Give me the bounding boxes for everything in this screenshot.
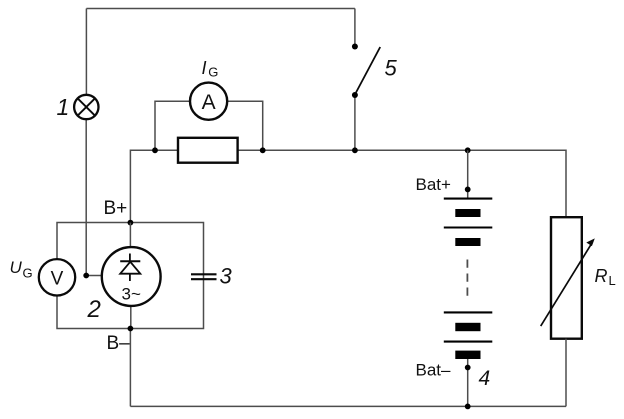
junction dot bus / battery [465,147,471,153]
switch 5 top contact dot [352,44,358,50]
wire top rail [86,8,355,10]
wire switch lower drop [354,95,356,150]
svg-text:2: 2 [87,296,101,323]
junction dot bus / switch [352,147,358,153]
svg-text:R: R [595,266,608,286]
svg-text:Bat–: Bat– [416,361,452,380]
svg-text:5: 5 [385,56,398,81]
wire rheostat bottom lead [565,339,567,407]
node Bat+ junction dot [465,187,471,193]
wire battery top lead [467,150,469,198]
label B- [107,333,131,354]
wire generator box loop (B+ rail, capacitor branch, B- rail, voltmeter branch) [57,223,204,329]
node Bat- junction dot [465,365,471,371]
junction dot bus-right / ammeter [260,147,266,153]
label 3 (capacitor designator) [220,264,233,289]
svg-text:Bat+: Bat+ [416,175,452,194]
label 4 (battery designator) [479,367,491,390]
wire battery bottom lead [467,359,469,406]
wire ammeter left lead [155,101,190,150]
label B+ [104,198,128,219]
switch 5 blade [356,47,380,93]
label 2 (generator designator) [87,296,101,323]
svg-text:V: V [51,269,64,290]
wire ammeter right lead [227,101,263,150]
lamp 1 (indicator lamp symbol) [74,95,98,119]
svg-text:4: 4 [479,367,491,390]
label RL (load resistance) [595,266,616,288]
label UG (generator voltage) [10,258,33,281]
rheostat RL (variable load resistor) [541,217,595,339]
svg-text:G: G [208,65,218,80]
wire B+ to generator top [129,223,131,248]
svg-text:U: U [10,258,23,277]
svg-text:A: A [202,91,216,114]
label IG (generator current) [202,58,219,80]
ammeter U meter A [190,83,227,120]
label 5 (switch designator) [385,56,398,81]
wire lamp branch upper [85,9,87,96]
node D+ junction dot [83,273,89,279]
voltmeter UG meter V [39,259,75,295]
resistor shunt (unlabelled rectangle) [178,138,238,163]
wire bottom bus [130,405,566,407]
label Bat- [416,361,452,380]
capacitor 3 plates [191,274,217,279]
switch 5 bottom contact dot [352,92,358,98]
junction dot bus-left / ammeter [152,147,158,153]
wire switch upper drop [354,9,356,47]
svg-text:I: I [202,58,207,78]
svg-text:1: 1 [57,94,70,120]
node B+ junction dot [127,220,133,226]
generator 2 (three-phase alternator with rectifier) [102,247,161,306]
svg-text:G: G [23,266,33,281]
battery 4 (multi-cell accumulator) [444,199,493,359]
svg-text:B+: B+ [104,198,128,219]
svg-text:3~: 3~ [122,284,141,303]
svg-text:B–: B– [107,333,131,354]
svg-text:3: 3 [220,264,233,289]
wire main bus [130,150,566,222]
label 1 (lamp designator) [57,94,70,120]
wire generator bottom to B- [130,306,132,329]
svg-text:L: L [609,273,616,288]
wire lamp branch lower (crosses box edge, no junction) [85,119,87,276]
node B- junction dot [127,326,133,332]
junction dot bottom bus / battery [465,404,471,410]
label Bat+ [416,175,452,194]
wire B- down to bottom bus [129,329,131,407]
wire node D+ to generator [86,275,103,277]
